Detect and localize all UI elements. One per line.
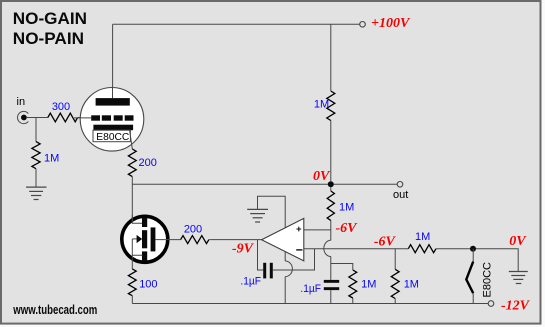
svg-text:1M: 1M <box>415 231 430 243</box>
capacitor .1uF (feedback) <box>263 263 266 279</box>
wire inverting line <box>304 248 409 250</box>
svg-text:.1µF: .1µF <box>300 283 321 295</box>
wire drain inside <box>132 215 142 223</box>
resistor 1M (input) <box>32 142 40 169</box>
terminal out <box>397 182 403 188</box>
resistor 1M (bottom right) <box>391 269 399 298</box>
ground (input) <box>26 187 47 199</box>
wire V- hop over feedback wire <box>285 261 292 277</box>
wire source down <box>131 255 133 269</box>
wire mosfet drain <box>131 184 133 224</box>
wire plate inside <box>112 87 114 98</box>
wire feedback cap to inverting input <box>273 249 315 270</box>
terminal +100V <box>360 22 366 28</box>
svg-text:www.tubecad.com: www.tubecad.com <box>13 303 98 317</box>
resistor 1M (bottom left) <box>349 270 357 298</box>
svg-text:100: 100 <box>139 279 157 291</box>
pin - <box>296 249 302 251</box>
ground (right) <box>509 272 528 284</box>
wire input node down <box>35 118 37 142</box>
wire -6V line to bottom 1M (right) <box>394 249 396 270</box>
label box E80CC <box>93 130 130 142</box>
wire jack to grid resistor <box>27 117 48 119</box>
resistor 200 (gate) <box>181 236 209 244</box>
wire resistor to tube grid <box>78 117 82 119</box>
wire 0V node down <box>330 187 332 191</box>
svg-text:.1µF: .1µF <box>240 276 261 288</box>
wire output drop to feedback cap <box>258 240 264 270</box>
resistor 1M (plate load) <box>327 91 335 121</box>
op-amp U1 <box>262 218 304 261</box>
svg-text:1M: 1M <box>44 153 59 165</box>
svg-text:1M: 1M <box>314 98 329 110</box>
svg-text:E80CC: E80CC <box>481 262 493 298</box>
mosfet drain bar <box>142 218 147 227</box>
svg-text:0V: 0V <box>509 234 527 249</box>
wire cathode lead <box>130 130 133 149</box>
wire rail to plate-load resistor <box>330 24 332 91</box>
svg-text:out: out <box>393 189 408 201</box>
wire grid inside <box>74 117 91 119</box>
capacitor .1uF (bypass) <box>324 280 339 283</box>
wire plate drop <box>112 24 114 98</box>
junction heater node <box>470 246 476 252</box>
svg-text:1M: 1M <box>339 202 354 214</box>
pin + <box>296 227 301 232</box>
svg-text:1M: 1M <box>361 279 376 291</box>
svg-text:E80CC: E80CC <box>96 131 129 143</box>
svg-text:0V: 0V <box>313 169 331 184</box>
triode cathode <box>93 125 133 131</box>
wire gate resistor to op-amp output <box>209 239 261 241</box>
svg-text:-12V: -12V <box>501 298 531 313</box>
svg-text:in: in <box>17 96 26 108</box>
mosfet Q1 envelope <box>122 216 168 262</box>
svg-text:-6V: -6V <box>336 221 359 236</box>
wire cathode resistor to 0V node <box>131 177 133 185</box>
resistor 300 (grid stopper) <box>48 113 78 122</box>
svg-text:NO-GAIN: NO-GAIN <box>13 10 87 28</box>
svg-text:NO-PAIN: NO-PAIN <box>13 30 84 48</box>
junction 0V node <box>328 181 334 187</box>
mosfet source bar <box>142 251 147 260</box>
terminal -12V <box>488 301 494 307</box>
ground (op-amp V+) <box>247 209 268 222</box>
resistor 1M (horizontal) <box>408 245 436 253</box>
wire to noninverting input <box>330 220 332 240</box>
wire down to bypass cap <box>330 257 332 280</box>
wire -12V rail <box>132 303 488 305</box>
wire bypass cap to -12V rail <box>330 290 332 303</box>
resistor 100 (source) <box>128 269 136 296</box>
mosfet gate bar <box>151 227 156 251</box>
wire to -12V rail <box>352 298 354 304</box>
triode grid (dashed) <box>91 115 100 120</box>
wire heater top <box>472 249 474 262</box>
mosfet channel bar <box>142 230 147 248</box>
wire branch to 1M <box>331 264 353 271</box>
wire source inside <box>132 239 142 255</box>
svg-text:300: 300 <box>52 101 70 113</box>
wire plate load to 0V node <box>330 121 332 182</box>
triode V1 envelope <box>80 88 144 152</box>
wire heater bottom <box>472 293 474 303</box>
wire 0V output line <box>132 183 397 185</box>
wire to -12V rail <box>131 296 133 304</box>
wire 1M to ground <box>35 169 37 187</box>
svg-text:1M: 1M <box>404 279 419 291</box>
wire to heater node <box>436 249 518 272</box>
wire + pin stub <box>304 229 331 231</box>
wire gate lead <box>155 239 180 241</box>
svg-text:+100V: +100V <box>371 16 411 31</box>
resistor 1M (0V to -6V) <box>327 191 334 220</box>
svg-text:-9V: -9V <box>232 242 255 257</box>
svg-text:200: 200 <box>184 224 202 236</box>
wire +100V top rail <box>113 23 360 25</box>
wire V- to -12V rail <box>284 277 286 304</box>
wire V+ supply <box>258 196 286 261</box>
svg-text:200: 200 <box>139 157 157 169</box>
wire hop over inverting line <box>324 240 331 256</box>
mosfet body arrow <box>132 238 137 240</box>
heater E80CC <box>466 262 473 294</box>
input jack J1 <box>18 111 29 123</box>
wire to -12V rail <box>394 299 396 304</box>
svg-text:-6V: -6V <box>374 234 397 249</box>
resistor 200 (cathode) <box>128 149 136 177</box>
triode plate <box>96 98 130 106</box>
